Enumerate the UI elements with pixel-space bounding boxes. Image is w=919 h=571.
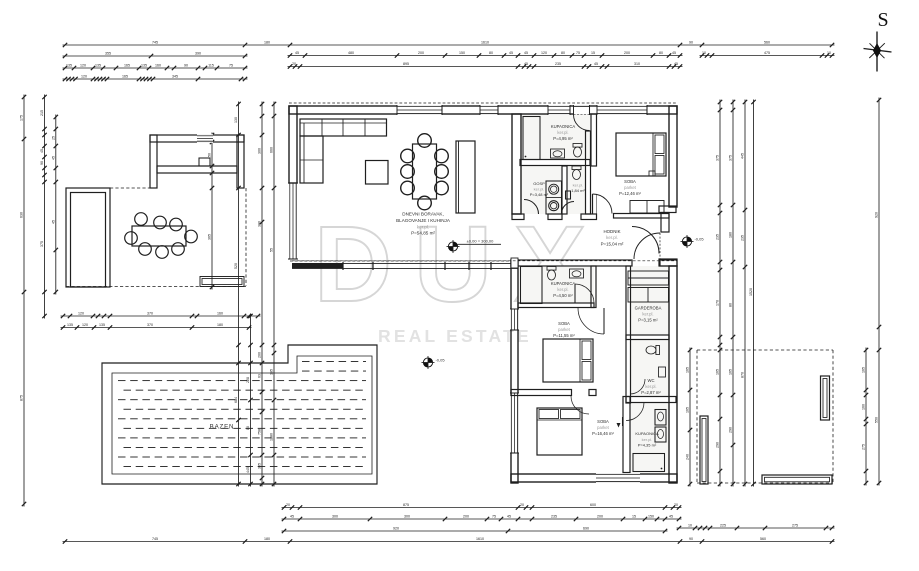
svg-text:380: 380	[258, 221, 262, 227]
svg-text:135: 135	[99, 323, 105, 327]
svg-text:20: 20	[674, 503, 678, 507]
svg-text:45: 45	[295, 51, 299, 55]
svg-text:-0,05: -0,05	[694, 237, 704, 242]
svg-text:45: 45	[51, 220, 55, 224]
svg-text:275: 275	[792, 523, 798, 527]
svg-text:875: 875	[403, 503, 409, 507]
svg-text:45: 45	[40, 149, 44, 153]
svg-text:235: 235	[716, 234, 720, 240]
svg-text:160: 160	[217, 311, 223, 315]
svg-text:75: 75	[492, 514, 496, 518]
svg-text:ker.pl.: ker.pl.	[557, 130, 568, 135]
svg-text:parket: parket	[558, 327, 570, 332]
svg-text:130: 130	[234, 117, 238, 123]
svg-text:165: 165	[716, 369, 720, 375]
svg-text:390: 390	[195, 51, 201, 55]
svg-text:GOSP: GOSP	[533, 181, 545, 186]
svg-text:20: 20	[520, 503, 524, 507]
svg-text:P=4,50 m²: P=4,50 m²	[553, 293, 573, 298]
svg-text:80: 80	[561, 51, 565, 55]
svg-text:75: 75	[576, 51, 580, 55]
svg-text:875: 875	[20, 395, 24, 401]
svg-text:445: 445	[246, 467, 250, 473]
svg-text:15: 15	[591, 51, 595, 55]
svg-text:120: 120	[82, 323, 88, 327]
svg-text:225: 225	[720, 523, 726, 527]
svg-text:1610: 1610	[481, 40, 489, 44]
svg-text:355: 355	[105, 51, 111, 55]
svg-text:45: 45	[507, 514, 511, 518]
svg-text:1520: 1520	[749, 288, 753, 296]
svg-text:45: 45	[672, 51, 676, 55]
svg-text:228: 228	[246, 377, 250, 383]
svg-text:P=3,48 m²: P=3,48 m²	[530, 192, 549, 197]
svg-text:120: 120	[80, 63, 86, 67]
svg-text:135: 135	[141, 63, 147, 67]
svg-text:ker.pl.: ker.pl.	[642, 312, 653, 317]
svg-text:80: 80	[489, 51, 493, 55]
svg-text:240: 240	[686, 454, 690, 460]
svg-text:235: 235	[555, 62, 561, 66]
svg-text:200: 200	[258, 352, 262, 358]
svg-text:SOBA: SOBA	[558, 321, 570, 326]
svg-text:150: 150	[648, 514, 654, 518]
svg-text:120: 120	[78, 311, 84, 315]
svg-text:75: 75	[229, 63, 233, 67]
svg-text:P=12,46 m²: P=12,46 m²	[619, 191, 641, 196]
svg-text:-0,05: -0,05	[435, 358, 445, 363]
svg-text:690: 690	[583, 526, 589, 530]
svg-text:P=54,85 m²: P=54,85 m²	[411, 231, 435, 236]
svg-text:KUPAONICA: KUPAONICA	[635, 431, 659, 436]
svg-text:45: 45	[594, 62, 598, 66]
svg-text:45: 45	[669, 514, 673, 518]
svg-text:80: 80	[729, 303, 733, 307]
svg-text:375: 375	[716, 155, 720, 161]
svg-text:445: 445	[741, 153, 745, 159]
svg-text:170: 170	[716, 300, 720, 306]
svg-text:630: 630	[20, 212, 24, 218]
svg-text:S: S	[877, 9, 888, 31]
svg-text:180: 180	[217, 323, 223, 327]
svg-text:160: 160	[155, 63, 161, 67]
svg-text:120: 120	[541, 51, 547, 55]
svg-text:165: 165	[862, 367, 866, 373]
svg-text:120: 120	[81, 74, 87, 78]
svg-text:560: 560	[760, 537, 766, 541]
svg-text:200: 200	[463, 514, 469, 518]
svg-text:P=4,95 m²: P=4,95 m²	[553, 136, 573, 141]
svg-text:BLAGOVANJE I KUHINJA: BLAGOVANJE I KUHINJA	[396, 218, 451, 223]
svg-text:1,84 m²: 1,84 m²	[571, 188, 585, 193]
svg-text:920: 920	[393, 526, 399, 530]
svg-text:80: 80	[659, 51, 663, 55]
svg-text:370: 370	[147, 323, 153, 327]
svg-text:10: 10	[688, 523, 692, 527]
svg-text:475: 475	[764, 51, 770, 55]
svg-text:ker.pl.: ker.pl.	[557, 287, 568, 292]
svg-text:375: 375	[729, 155, 733, 161]
svg-text:45: 45	[509, 51, 513, 55]
svg-text:20: 20	[286, 503, 290, 507]
svg-text:180: 180	[729, 232, 733, 238]
svg-text:290: 290	[716, 442, 720, 448]
svg-text:215: 215	[40, 110, 44, 116]
svg-text:165: 165	[124, 63, 130, 67]
svg-text:300: 300	[404, 514, 410, 518]
svg-text:200: 200	[597, 514, 603, 518]
svg-text:90: 90	[689, 40, 693, 44]
svg-text:235: 235	[741, 235, 745, 241]
svg-text:BAZEN: BAZEN	[210, 424, 235, 431]
svg-text:HODNIK: HODNIK	[603, 229, 620, 234]
svg-text:290: 290	[729, 427, 733, 433]
svg-text:305: 305	[258, 463, 262, 469]
svg-text:P=2,87 m²: P=2,87 m²	[641, 390, 661, 395]
svg-text:45: 45	[674, 62, 678, 66]
svg-text:10: 10	[827, 51, 831, 55]
svg-text:185: 185	[270, 369, 274, 375]
svg-text:300: 300	[258, 148, 262, 154]
svg-text:235: 235	[551, 514, 557, 518]
svg-text:200: 200	[624, 51, 630, 55]
svg-text:895: 895	[403, 62, 409, 66]
svg-text:165: 165	[122, 74, 128, 78]
svg-text:300: 300	[332, 514, 338, 518]
svg-text:45: 45	[51, 156, 55, 160]
svg-text:P=4,35 m²: P=4,35 m²	[638, 443, 657, 448]
svg-text:550: 550	[875, 417, 879, 423]
svg-text:63: 63	[258, 374, 262, 378]
svg-text:660: 660	[270, 147, 274, 153]
svg-text:520: 520	[234, 263, 238, 269]
svg-text:45: 45	[290, 514, 294, 518]
svg-text:375: 375	[40, 241, 44, 247]
svg-text:ker.pl.: ker.pl.	[606, 235, 618, 240]
svg-text:ker.pl.: ker.pl.	[534, 187, 545, 192]
svg-text:345: 345	[172, 74, 178, 78]
svg-text:ker.pl.: ker.pl.	[417, 224, 429, 229]
svg-text:±0,00 = 300,00: ±0,00 = 300,00	[467, 239, 495, 244]
svg-text:180: 180	[264, 537, 270, 541]
svg-text:150: 150	[459, 51, 465, 55]
svg-text:KUPAONICA: KUPAONICA	[551, 281, 576, 286]
svg-text:15: 15	[632, 514, 636, 518]
svg-text:P=15,04 m²: P=15,04 m²	[601, 241, 624, 246]
svg-text:480: 480	[348, 51, 354, 55]
svg-text:758: 758	[258, 429, 262, 435]
svg-text:GARDEROBA: GARDEROBA	[635, 306, 662, 311]
svg-text:90: 90	[184, 63, 188, 67]
svg-text:135: 135	[66, 63, 72, 67]
svg-text:REAL ESTATE: REAL ESTATE	[378, 326, 532, 346]
svg-text:WC: WC	[648, 378, 655, 383]
svg-text:ker.pl.: ker.pl.	[642, 437, 653, 442]
svg-text:55: 55	[270, 248, 274, 252]
svg-text:1610: 1610	[476, 537, 484, 541]
svg-text:135: 135	[95, 63, 101, 67]
svg-text:165: 165	[729, 369, 733, 375]
svg-text:45: 45	[524, 51, 528, 55]
svg-text:P=3,15 m²: P=3,15 m²	[638, 318, 658, 323]
svg-text:135: 135	[67, 323, 73, 327]
svg-text:25: 25	[51, 136, 55, 140]
svg-text:180: 180	[264, 40, 270, 44]
svg-text:parket: parket	[624, 185, 636, 190]
svg-text:370: 370	[147, 311, 153, 315]
svg-text:20: 20	[292, 62, 296, 66]
svg-text:DNEVNI BORAVAK,: DNEVNI BORAVAK,	[402, 212, 443, 217]
svg-text:165: 165	[686, 367, 690, 373]
svg-text:ker.pl.: ker.pl.	[645, 384, 656, 389]
svg-text:KUPAONICA: KUPAONICA	[551, 124, 576, 129]
svg-text:200: 200	[418, 51, 424, 55]
svg-text:90: 90	[40, 161, 44, 165]
svg-text:275: 275	[862, 444, 866, 450]
svg-text:745: 745	[152, 537, 158, 541]
svg-text:SOBA: SOBA	[597, 419, 609, 424]
svg-text:115: 115	[208, 63, 214, 67]
svg-text:600: 600	[590, 503, 596, 507]
svg-text:1280: 1280	[270, 433, 274, 441]
svg-text:365: 365	[208, 234, 212, 240]
svg-text:175: 175	[20, 115, 24, 121]
svg-text:P=16,46 m²: P=16,46 m²	[592, 431, 614, 436]
svg-text:90: 90	[689, 537, 693, 541]
svg-text:745: 745	[152, 40, 158, 44]
svg-text:165: 165	[686, 407, 690, 413]
svg-text:45: 45	[524, 62, 528, 66]
svg-text:160: 160	[862, 404, 866, 410]
svg-text:870: 870	[741, 372, 745, 378]
svg-text:parket: parket	[597, 425, 609, 430]
svg-text:920: 920	[875, 212, 879, 218]
svg-text:P=11,55 m²: P=11,55 m²	[553, 333, 575, 338]
svg-text:SOBA: SOBA	[624, 179, 636, 184]
svg-text:ker.pl.: ker.pl.	[573, 183, 584, 188]
svg-text:10: 10	[702, 51, 706, 55]
svg-text:560: 560	[764, 40, 770, 44]
svg-text:310: 310	[634, 62, 640, 66]
